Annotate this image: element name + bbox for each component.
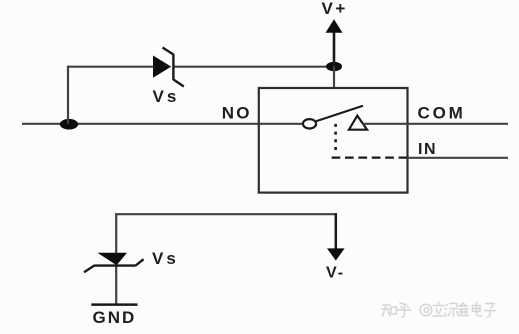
switch arm — [316, 106, 363, 122]
switch pivot circle — [303, 119, 316, 128]
watermark char dian — [473, 303, 483, 317]
svg-text:GND: GND — [93, 308, 137, 327]
svg-text:NO: NO — [222, 104, 252, 123]
wire V- rail left vertical — [115, 213, 117, 304]
V- arrowhead — [327, 248, 345, 260]
watermark char zhi — [382, 305, 397, 316]
wire COM output — [363, 123, 509, 125]
watermark char xin — [459, 303, 469, 316]
svg-text:Vs: Vs — [152, 249, 179, 268]
driver triangle — [349, 116, 367, 130]
wire V- rail horizontal — [115, 213, 337, 215]
wire V+ shaft — [333, 31, 336, 68]
V+ arrowhead — [326, 19, 343, 33]
svg-text:V+: V+ — [322, 0, 348, 18]
node junction J2 — [326, 62, 342, 71]
node junction J1 — [60, 119, 78, 130]
control line dashed horizontal — [332, 156, 408, 158]
wire main input horizontal — [22, 123, 259, 125]
svg-text:Vs: Vs — [153, 87, 180, 106]
wire inside box to switch pivot — [259, 123, 304, 125]
wire node J2 to box top — [333, 67, 335, 90]
wire IN — [408, 157, 509, 159]
wire V- arrow vertical — [335, 213, 338, 250]
watermark char shen — [445, 304, 459, 317]
zener diode Vs (top) — [153, 48, 184, 87]
watermark char hu — [398, 303, 411, 317]
wire top horizontal left of diode — [67, 66, 154, 68]
watermark char li — [433, 303, 444, 317]
watermark zhihu — [382, 303, 496, 318]
wire top horizontal right of diode — [173, 66, 336, 68]
analog switch box U1 — [259, 88, 408, 193]
svg-text:IN: IN — [418, 141, 437, 158]
ground bar — [91, 303, 137, 306]
svg-text:V-: V- — [326, 265, 345, 282]
svg-text:COM: COM — [418, 103, 466, 122]
watermark char at — [420, 304, 432, 316]
watermark char zi — [485, 304, 496, 318]
control line dotted vertical — [334, 124, 337, 153]
zener diode Vs (bottom) — [84, 253, 144, 272]
wire left vertical riser — [67, 66, 69, 124]
